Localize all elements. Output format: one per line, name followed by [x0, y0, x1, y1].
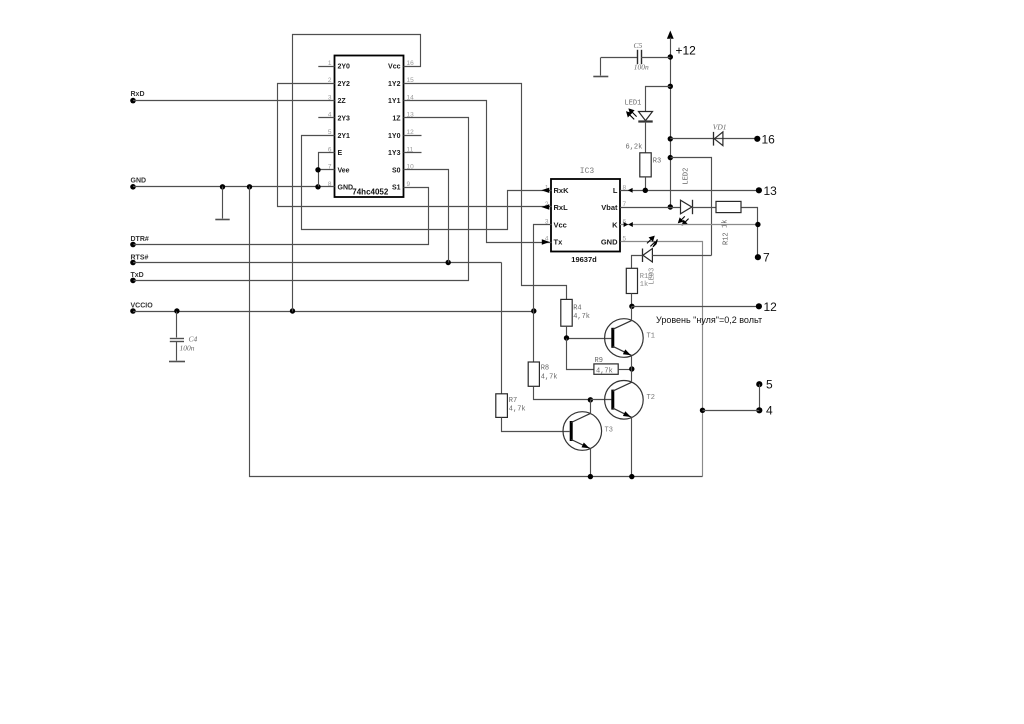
ground symbol below GND rail	[222, 187, 224, 219]
wire R7 to T3 base	[502, 418, 570, 432]
junction T1 collector node	[629, 304, 634, 309]
svg-text:1Z: 1Z	[392, 116, 401, 123]
svg-text:1: 1	[328, 60, 332, 67]
wire U1 pin16 Vcc to VCCIO	[293, 35, 421, 312]
svg-text:L: L	[613, 186, 618, 195]
IC U1 74hc4052 body	[335, 56, 404, 198]
wire C5 to ground	[600, 58, 602, 76]
svg-text:4: 4	[766, 404, 773, 418]
ground symbol below C4	[169, 361, 185, 363]
wire T1 collector	[631, 306, 633, 320]
junction GND at U1 pin8	[315, 184, 320, 189]
wire R9 to emitter node	[618, 369, 632, 371]
junction +12/LED2 branch	[668, 155, 673, 160]
svg-text:100n: 100n	[180, 344, 195, 353]
svg-text:R4: R4	[573, 305, 581, 313]
svg-text:2Y0: 2Y0	[338, 64, 351, 71]
svg-text:1k: 1k	[640, 281, 648, 289]
wire IC3 Vbat to LED2	[620, 207, 681, 209]
svg-text:E: E	[338, 150, 343, 157]
svg-text:1Y1: 1Y1	[388, 98, 401, 105]
junction VCCIO at Vcc riser	[290, 308, 295, 313]
wire IC3 Vcc down	[534, 225, 552, 312]
svg-text:1Y2: 1Y2	[388, 81, 401, 88]
svg-text:2Y1: 2Y1	[338, 133, 351, 140]
svg-text:1Y3: 1Y3	[388, 150, 401, 157]
svg-text:GND: GND	[131, 178, 147, 185]
resistor R4	[561, 299, 572, 326]
wire R13 to T1 collector node	[631, 294, 633, 307]
terminal dot TxD	[130, 278, 136, 284]
wire T2 emitter to rail	[631, 417, 633, 476]
arrow IC3 pin6 K bidirectional	[624, 222, 629, 227]
junction T1 emitter node	[629, 366, 634, 371]
U1 pin11 stub	[404, 152, 422, 154]
wire IC3 K line	[620, 224, 758, 226]
svg-text:T3: T3	[605, 427, 613, 435]
wire R8 to T2 base	[534, 387, 591, 400]
junction +12/LED1 branch	[668, 84, 673, 89]
wire U1 pin6 E to Vee	[319, 153, 335, 187]
junction RTS#/S0	[446, 260, 451, 265]
svg-text:2Z: 2Z	[338, 98, 347, 105]
wire T1 base node down to R9	[567, 339, 594, 370]
svg-text:4,7k: 4,7k	[509, 406, 526, 414]
junction IC3-GND line at terminal4 branch	[700, 408, 705, 413]
wire U1 pin15 1Y2 to R4	[404, 84, 567, 300]
wire DTR# to S1	[134, 188, 429, 245]
capacitor C5	[601, 57, 638, 59]
svg-text:16: 16	[407, 60, 415, 67]
svg-text:100n: 100n	[634, 63, 649, 72]
U1 pin4 stub	[318, 117, 334, 119]
svg-text:19637d: 19637d	[571, 255, 597, 264]
wire LED2 to R12	[692, 207, 716, 209]
terminal dot 12	[756, 303, 762, 309]
svg-text:5: 5	[766, 378, 773, 392]
svg-text:Vbat: Vbat	[601, 203, 618, 212]
wire terminal4 left	[703, 410, 760, 412]
svg-text:GND: GND	[601, 237, 618, 246]
svg-text:GND: GND	[338, 185, 354, 192]
resistor R9	[594, 364, 618, 374]
svg-text:12: 12	[764, 300, 778, 314]
terminal dot VCCIO	[130, 308, 136, 314]
svg-text:Vcc: Vcc	[388, 64, 401, 71]
svg-text:VD1: VD1	[713, 122, 727, 131]
transistor T3	[563, 412, 602, 451]
wire LED3 to R13	[632, 256, 643, 269]
junction rail T3	[588, 474, 593, 479]
svg-text:R12: R12	[722, 232, 730, 245]
svg-text:LED1: LED1	[625, 100, 642, 108]
junction T1 base	[564, 335, 569, 340]
svg-text:2Y2: 2Y2	[338, 81, 351, 88]
wire LED1 branch	[646, 87, 671, 112]
resistor R7	[496, 394, 508, 418]
resistor R3	[640, 153, 651, 177]
terminal dot 16	[754, 136, 760, 142]
IC IC3 19637d body	[551, 179, 620, 252]
wire to VD1	[670, 138, 757, 140]
wire T2 base segment	[590, 399, 611, 401]
junction VCCIO at IC3 Vcc / R8	[531, 308, 536, 313]
svg-text:+12: +12	[676, 44, 697, 58]
svg-text:1Y0: 1Y0	[388, 133, 401, 140]
LED D3 LED3	[642, 249, 644, 263]
svg-text:C4: C4	[189, 335, 198, 344]
terminal dot RxD	[130, 98, 136, 104]
svg-text:7: 7	[763, 251, 770, 265]
svg-text:4,7k: 4,7k	[596, 368, 613, 376]
terminal dot DTR#	[130, 242, 136, 248]
terminal dot 4	[756, 407, 762, 413]
wire RTS#	[133, 262, 502, 264]
wire RTS# down to R7	[501, 263, 503, 394]
wire IC3 L to terminal 13	[620, 190, 759, 192]
junction K/terminal7	[755, 222, 760, 227]
LED D2 LED2	[681, 200, 692, 214]
arrow IC3 pin4 Tx	[542, 239, 550, 244]
arrow IC3 pin1 RxK	[541, 188, 549, 193]
junction +12/C5	[668, 54, 673, 59]
junction GND at bottom-rail drop	[247, 184, 252, 189]
svg-text:16: 16	[762, 132, 776, 146]
wire bottom rail	[250, 187, 703, 477]
svg-text:RxK: RxK	[554, 186, 570, 195]
svg-text:LED2: LED2	[683, 168, 691, 185]
transistor T2	[605, 381, 644, 420]
LED3 emission arrows	[647, 236, 657, 247]
wire GND rail	[133, 186, 335, 188]
wire T3 collector	[590, 400, 592, 414]
arrow IC3 pin8 L	[628, 188, 633, 193]
resistor R13	[626, 268, 637, 293]
junction Vee/E	[315, 167, 320, 172]
svg-text:74hc4052: 74hc4052	[352, 188, 389, 197]
wire R12 to terminal 7	[742, 208, 758, 258]
wire U1 pin2 2Y2 to IC3 RxL	[278, 84, 552, 207]
wire LED2 branch over to right	[671, 158, 712, 256]
capacitor C4	[176, 312, 178, 338]
svg-text:6,2k: 6,2k	[626, 144, 643, 152]
arrow IC3 pin2 RxL	[541, 204, 549, 209]
svg-text:IC3: IC3	[580, 167, 595, 176]
LED D1 LED1	[639, 112, 653, 121]
terminal dot 13	[756, 187, 762, 193]
svg-text:S0: S0	[392, 167, 401, 174]
LED1 emission arrows	[627, 109, 637, 119]
LED2 emission arrows	[679, 216, 689, 224]
wire R4 to T1 base	[566, 326, 568, 338]
svg-text:Vee: Vee	[338, 167, 350, 174]
wire IC3 GND to bottom rail	[621, 242, 703, 477]
svg-text:1k: 1k	[722, 220, 730, 228]
+12 supply arrow	[667, 31, 674, 39]
svg-text:4,7k: 4,7k	[541, 373, 558, 381]
wire U1 pin14 1Y1 to IC3 Tx	[404, 101, 552, 243]
wire U1 pin7 Vee	[318, 169, 335, 171]
U1 pin12 stub	[404, 135, 422, 137]
wire RxD to U1 pin3 2Z	[133, 100, 335, 102]
wire VCCIO rail	[133, 311, 534, 313]
svg-text:R9: R9	[595, 357, 603, 365]
wire to terminal 12	[632, 306, 759, 308]
svg-text:RxD: RxD	[131, 91, 145, 98]
svg-text:LED3: LED3	[649, 268, 657, 285]
svg-text:K: K	[612, 220, 618, 229]
terminal dot GND	[130, 184, 136, 190]
junction rail T2	[629, 474, 634, 479]
wire LED3 segment	[652, 255, 711, 257]
resistor R12	[716, 201, 741, 212]
U1 pin1 stub	[318, 66, 334, 68]
wire R3 to L line	[645, 177, 647, 190]
wire T1 emitter down	[631, 356, 633, 369]
junction R3 on L line	[643, 188, 648, 193]
ground symbol at C5	[593, 76, 608, 78]
svg-text:T1: T1	[647, 333, 655, 341]
junction Vbat/+12	[668, 204, 673, 209]
svg-text:9: 9	[407, 181, 411, 188]
+12 rail vertical	[670, 38, 672, 208]
svg-text:T2: T2	[647, 394, 655, 402]
diode VD1	[713, 132, 715, 146]
svg-text:4,7k: 4,7k	[573, 313, 590, 321]
svg-text:Vcc: Vcc	[554, 220, 567, 229]
svg-text:13: 13	[764, 184, 778, 198]
wire T3 emitter to rail	[590, 449, 592, 477]
svg-text:C5: C5	[634, 41, 643, 50]
terminal dot 7	[755, 254, 761, 260]
junction T2 base	[588, 397, 593, 402]
resistor R8	[528, 362, 539, 386]
svg-text:R7: R7	[509, 397, 517, 405]
svg-text:RxL: RxL	[554, 203, 569, 212]
terminal dot 5	[756, 381, 762, 387]
wire S0 from U1 pin10	[404, 170, 449, 263]
svg-text:R3: R3	[653, 158, 661, 166]
wire T2 collector	[631, 369, 633, 382]
svg-text:R8: R8	[541, 365, 549, 373]
transistor T1	[605, 319, 644, 358]
svg-text:Tx: Tx	[554, 237, 564, 246]
junction GND at ground symbol	[220, 184, 225, 189]
junction VCCIO at C4	[174, 308, 179, 313]
junction VD1 branch	[668, 136, 673, 141]
wire R8 from VCCIO junction	[533, 311, 535, 362]
svg-text:S1: S1	[392, 185, 401, 192]
wire TxD to U1 pin13 1Z	[134, 118, 469, 281]
terminal dot RTS#	[130, 260, 136, 266]
wire LED1 to R3	[645, 122, 647, 153]
wire U1 pin5 2Y1 to IC3 RxK	[302, 136, 552, 230]
svg-text:Уровень "нуля"=0,2 вольт: Уровень "нуля"=0,2 вольт	[656, 315, 762, 325]
svg-text:2Y3: 2Y3	[338, 116, 351, 123]
wire terminal5 to terminal4	[759, 384, 761, 410]
